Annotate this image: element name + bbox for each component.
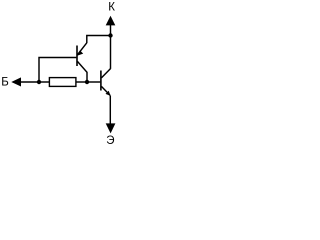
terminal arrow Б [11, 77, 21, 86]
terminal arrow К [106, 16, 116, 26]
terminal arrow Э [106, 123, 116, 133]
transistor VT2 collector [101, 69, 110, 78]
svg-text:К: К [108, 2, 115, 14]
wire node2 to VT2 base [87, 81, 100, 83]
wire node1 up to VT1 base [39, 58, 76, 83]
resistor R1 [49, 78, 76, 87]
node2 junction dot [85, 80, 89, 84]
wire node1 to resistor R1 [39, 81, 50, 83]
transistor VT2 base bar [100, 71, 102, 91]
wire Б to node1 [20, 81, 39, 83]
wire VT2 collector to node3 [110, 36, 112, 69]
transistor VT1 emitter (arrow into bar, PNP) [77, 43, 87, 56]
wire resistor R1 to node2 [76, 81, 87, 83]
svg-text:Э: Э [106, 135, 114, 147]
transistor VT1 base bar [76, 46, 78, 67]
wire VT1 emitter to node3 [87, 36, 111, 44]
transistor VT1 collector [77, 61, 87, 82]
node1 junction dot [37, 80, 41, 84]
svg-text:Б: Б [1, 76, 9, 88]
node3 junction dot [108, 33, 112, 37]
wire node3 to К arrow [110, 25, 112, 36]
transistor VT2 emitter (arrow out of bar, NPN) [101, 86, 110, 96]
wire VT2 emitter to Э arrow [109, 96, 111, 125]
